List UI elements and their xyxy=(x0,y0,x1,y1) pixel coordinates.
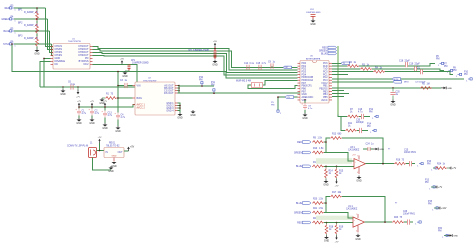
ground C20 xyxy=(390,100,396,107)
ground C4 xyxy=(115,126,121,133)
wire R19 down xyxy=(336,234,338,235)
connector P6 xyxy=(10,43,17,48)
wire C26 to P18 xyxy=(410,221,413,223)
capacitor C8 xyxy=(302,103,307,110)
wire row4 to P8 xyxy=(423,72,453,75)
capacitor C25 xyxy=(409,161,411,166)
svg-text:PD2: PD2 xyxy=(302,69,307,71)
wire C4 top xyxy=(117,98,119,113)
svg-text:PB6: PB6 xyxy=(302,88,307,90)
svg-text:JP2 JUMPER-2SMD: JP2 JUMPER-2SMD xyxy=(188,50,210,52)
wire BP3 to ground xyxy=(36,47,38,49)
svg-text:GND: GND xyxy=(356,180,362,183)
svg-text:GREEN: GREEN xyxy=(294,212,303,214)
wire feedback A left xyxy=(326,138,330,142)
svg-text:PM: PM xyxy=(427,163,431,165)
wire C25 to P17 xyxy=(412,163,415,165)
microcontroller U5 body xyxy=(300,61,329,104)
svg-text:R10: R10 xyxy=(313,148,318,150)
ground at C6 xyxy=(60,89,66,96)
svg-text:PB0/ICP1: PB0/ICP1 xyxy=(302,86,313,88)
junction feedback A xyxy=(382,163,384,165)
bus vertical xyxy=(337,46,339,115)
resistor R20 xyxy=(312,202,324,205)
junction out3 xyxy=(178,90,180,92)
wire U1 GND pin down xyxy=(44,58,51,87)
svg-text:GND: GND xyxy=(76,122,82,125)
wire GREEN to U1 CH2IN xyxy=(48,19,54,49)
svg-text:4.7u: 4.7u xyxy=(262,63,267,65)
svg-text:22pF: 22pF xyxy=(405,61,411,63)
svg-text:R16: R16 xyxy=(396,159,401,161)
svg-text:PD5/OC0B: PD5/OC0B xyxy=(302,77,314,79)
resonator X1 xyxy=(252,83,263,88)
regulator REG1 body xyxy=(104,148,124,158)
svg-text:PM: PM xyxy=(436,58,440,60)
net flag BLUE block B xyxy=(302,202,311,205)
ground flag row8 xyxy=(441,87,452,90)
wire REG1 out xyxy=(124,150,129,152)
wire C13 bottom xyxy=(104,118,106,123)
wire C1 top xyxy=(78,107,80,109)
connector P5 xyxy=(10,30,17,35)
wire row2 b xyxy=(359,65,405,67)
wire feedback A xyxy=(342,138,383,164)
capacitor C6 xyxy=(71,84,73,89)
ground flag P20 row xyxy=(447,234,458,237)
svg-text:PM: PM xyxy=(428,203,432,205)
connector P8 xyxy=(456,73,462,78)
svg-text:GND: GND xyxy=(122,75,128,78)
svg-text:PD3: PD3 xyxy=(302,72,307,74)
svg-text:22pF: 22pF xyxy=(415,64,421,66)
power +7V C2 xyxy=(90,101,94,107)
wire R7 to C16 xyxy=(359,116,361,118)
ground C1 xyxy=(76,118,82,125)
svg-text:ATMEGA88PA: ATMEGA88PA xyxy=(306,57,321,60)
wire P4 GREEN to net xyxy=(14,18,48,20)
svg-text:RED: RED xyxy=(297,222,302,224)
svg-text:C19: C19 xyxy=(409,64,414,66)
wire to -in B xyxy=(324,222,353,224)
svg-text:1M: 1M xyxy=(427,84,430,86)
svg-text:BLUE: BLUE xyxy=(296,203,302,205)
junction JP2 tap xyxy=(214,48,216,50)
svg-text:R23: R23 xyxy=(394,217,399,219)
wire jack to REG1 xyxy=(97,150,105,152)
ground below damping chain xyxy=(34,49,40,56)
wire R18 to gnd xyxy=(326,234,328,235)
wire U1 DISABLE down xyxy=(40,61,51,87)
svg-text:R_DAMP_US: R_DAMP_US xyxy=(24,37,39,40)
capacitor C30 xyxy=(359,128,361,133)
junction C6 gnd xyxy=(62,86,64,88)
wire U2 gnd pins xyxy=(178,103,181,111)
svg-text:C15: C15 xyxy=(256,63,261,65)
resistor R11 xyxy=(345,129,357,132)
svg-text:7: 7 xyxy=(357,156,358,158)
net flag RED block B xyxy=(302,221,311,224)
U5 left pin stubs xyxy=(298,62,301,64)
wire row9 xyxy=(332,90,344,92)
svg-text:4.7u: 4.7u xyxy=(358,111,363,113)
resistor R9 xyxy=(312,141,324,144)
svg-text:+12V: +12V xyxy=(441,208,447,210)
wire SYNC into U4 xyxy=(226,72,298,78)
jumper JP1 xyxy=(128,64,131,70)
svg-text:DS OUT: DS OUT xyxy=(164,92,174,95)
wire +7V tap xyxy=(77,87,79,90)
capacitor C16 xyxy=(361,114,363,119)
power +7V C1 xyxy=(77,101,81,107)
wire P13 to +7V xyxy=(431,186,435,188)
wire RED to U1 CH1IN xyxy=(46,8,54,46)
svg-text:GND: GND xyxy=(89,122,95,125)
wire CH2OUT run xyxy=(93,49,298,67)
svg-text:AVCC: AVCC xyxy=(321,99,328,102)
connector J1 DC jack xyxy=(89,148,97,158)
junction mix A xyxy=(325,141,327,143)
ground stem below rail xyxy=(62,87,64,89)
svg-text:BIAS: BIAS xyxy=(137,97,143,100)
junction R18 tap xyxy=(326,222,328,224)
svg-text:R17: R17 xyxy=(332,192,337,194)
power +5V at JP2 xyxy=(213,41,217,47)
svg-text:PD0: PD0 xyxy=(302,63,307,65)
svg-text:GND: GND xyxy=(355,238,361,241)
wire TxD row xyxy=(332,62,341,64)
wire U2 gnd pin3 xyxy=(178,107,181,109)
svg-text:JUMPER-2SMD: JUMPER-2SMD xyxy=(132,63,149,65)
svg-text:GND: GND xyxy=(99,102,105,105)
op-amp U1:1 xyxy=(353,217,365,227)
net flag BLUE bus entry xyxy=(328,52,337,55)
junction rail a xyxy=(78,106,80,108)
svg-text:Pr: Pr xyxy=(388,148,390,151)
power +7V at jack xyxy=(98,137,102,143)
svg-text:GREEN: GREEN xyxy=(1,19,10,21)
junction C20 xyxy=(392,87,394,89)
svg-text:GND: GND xyxy=(108,170,114,173)
net flag RED bus entry xyxy=(328,46,337,49)
svg-text:0.1u: 0.1u xyxy=(71,84,76,86)
svg-text:BLUE: BLUE xyxy=(296,166,302,168)
svg-text:R13: R13 xyxy=(332,134,337,136)
junction P5 xyxy=(36,30,38,32)
svg-text:RED: RED xyxy=(297,142,302,144)
svg-text:+7V: +7V xyxy=(77,101,81,103)
U3:1 vee stub xyxy=(358,167,360,174)
svg-text:GND: GND xyxy=(115,130,121,133)
svg-text:PM: PM xyxy=(211,84,215,86)
ground U2 pad xyxy=(190,110,196,117)
wire C24 left xyxy=(363,148,368,150)
U1 left pin stubs xyxy=(51,45,54,47)
svg-text:4.7u: 4.7u xyxy=(121,117,126,119)
wire BP2-BP3 xyxy=(36,34,38,37)
svg-text:R_DAMP_US: R_DAMP_US xyxy=(24,24,39,27)
capacitor C1 xyxy=(76,109,81,116)
junction gnd2 xyxy=(179,105,181,107)
svg-text:GND: GND xyxy=(190,114,196,117)
net flag MISO xyxy=(393,81,402,84)
ground U2 xyxy=(177,113,183,120)
wire C30 to P14 xyxy=(362,130,368,132)
svg-text:BP1: BP1 xyxy=(18,10,23,12)
wire row2 xyxy=(332,65,347,67)
svg-text:+7V: +7V xyxy=(90,101,94,103)
wire BLUE to U1 CH3IN xyxy=(50,31,54,52)
wire 7V to U2 AVCC xyxy=(105,105,135,108)
svg-text:0.1u: 0.1u xyxy=(250,63,255,65)
svg-text:CA3140EZ: CA3140EZ xyxy=(348,149,360,152)
resistor BP3 xyxy=(36,37,39,47)
wire C2 bottom xyxy=(91,116,93,118)
wire P3 RED to net xyxy=(14,7,46,9)
svg-text:PM: PM xyxy=(425,182,429,184)
svg-text:U3:1: U3:1 xyxy=(350,147,356,149)
svg-text:PM: PM xyxy=(367,126,371,128)
junction mix B xyxy=(325,202,327,204)
svg-text:REG1: REG1 xyxy=(109,143,116,145)
wire BP1 top xyxy=(36,8,38,11)
resistor R2 xyxy=(347,65,359,68)
capacitor C19 xyxy=(414,66,416,71)
wire R24 to +7V xyxy=(447,167,449,169)
svg-text:100nF PM1: 100nF PM1 xyxy=(404,152,417,154)
capacitor C4 xyxy=(115,113,120,120)
ground REG1 xyxy=(111,162,117,168)
svg-text:GREEN: GREEN xyxy=(294,152,303,154)
junction P4 xyxy=(36,18,38,20)
resistor R7 xyxy=(347,115,359,118)
video amp U2 body xyxy=(135,82,175,115)
svg-text:GND 4: GND 4 xyxy=(166,110,174,112)
resistor R13fb xyxy=(330,137,342,140)
wire C24 right xyxy=(371,148,374,150)
net flag RESET xyxy=(283,66,292,69)
wire row3 to P7 xyxy=(417,69,444,71)
svg-text:PM: PM xyxy=(271,104,274,106)
connector P15 xyxy=(432,207,438,212)
U2 gnd pin stubs xyxy=(175,102,178,104)
svg-text:+5V: +5V xyxy=(213,41,217,43)
wire row10 xyxy=(332,93,349,95)
wire jack to +7V xyxy=(99,143,101,151)
svg-text:4: 4 xyxy=(357,172,358,174)
wire P20 to gnd flag xyxy=(444,235,447,237)
wire U2 gnd pin2 xyxy=(178,105,181,107)
svg-text:2200pF: 2200pF xyxy=(356,122,364,124)
resistor R17fb xyxy=(330,195,342,198)
svg-text:BP2: BP2 xyxy=(18,23,23,25)
svg-text:JUMPER-SMD: JUMPER-SMD xyxy=(306,12,321,14)
connector P17 xyxy=(417,163,423,168)
svg-text:4.7u: 4.7u xyxy=(82,113,87,115)
connector P20 xyxy=(442,234,448,239)
connector P11 xyxy=(213,89,215,93)
ground R18 xyxy=(324,236,330,243)
connector P3 xyxy=(10,7,17,12)
net highlight band B xyxy=(316,216,353,220)
U3:1 vcc stub xyxy=(358,156,360,160)
svg-text:+7V: +7V xyxy=(335,242,339,244)
connector P13 xyxy=(429,186,435,191)
svg-text:PB1: PB1 xyxy=(323,86,328,88)
svg-text:+7V: +7V xyxy=(98,137,102,139)
ground U3:1 xyxy=(356,176,362,183)
connector P4 xyxy=(10,18,17,23)
U2 left pin stubs xyxy=(133,85,136,87)
junction bias xyxy=(117,97,119,99)
wire bias branch xyxy=(117,86,119,99)
svg-text:CONN-TV_SP-PL-M: CONN-TV_SP-PL-M xyxy=(67,145,88,147)
net flag RED block A xyxy=(302,141,311,144)
svg-text:GND: GND xyxy=(447,88,452,90)
svg-text:PC6: PC6 xyxy=(323,63,328,65)
power +7V C13 xyxy=(103,101,107,107)
net highlight band A xyxy=(316,158,352,164)
junction C3 xyxy=(117,85,119,87)
power +7V below R15 xyxy=(335,180,339,188)
svg-text:PC1: PC1 xyxy=(323,74,328,76)
resistor R12 xyxy=(312,165,324,168)
ground R14 xyxy=(323,180,329,187)
svg-text:+7V: +7V xyxy=(438,187,443,189)
svg-text:OUT: OUT xyxy=(118,152,123,154)
junction P3/BP1 xyxy=(36,7,38,9)
wire P6 SYNC to net xyxy=(14,43,52,45)
svg-text:PC0: PC0 xyxy=(323,72,328,74)
wire C20 drop xyxy=(392,88,394,92)
wire to -in A xyxy=(324,165,354,167)
svg-text:PM: PM xyxy=(199,79,203,81)
wire to +in A xyxy=(326,153,354,162)
svg-text:+7V: +7V xyxy=(76,97,80,99)
svg-text:PB7: PB7 xyxy=(302,91,307,93)
svg-text:RED: RED xyxy=(5,8,10,10)
svg-text:PM: PM xyxy=(464,74,468,76)
svg-text:GND: GND xyxy=(102,127,108,130)
svg-text:CA3140EZ: CA3140EZ xyxy=(346,208,358,211)
wire out row B to U4 xyxy=(178,92,301,94)
junction U1 GND xyxy=(43,58,45,60)
power +7V P13 row xyxy=(435,186,443,189)
wire row4 b xyxy=(385,71,420,73)
svg-text:4.7u: 4.7u xyxy=(95,113,100,115)
svg-text:RxD: RxD xyxy=(323,66,328,68)
svg-text:PB3: PB3 xyxy=(323,91,328,93)
capacitor C26 xyxy=(407,220,409,225)
wire rail up to U1 NC xyxy=(93,64,138,87)
U1 right pin stubs xyxy=(90,45,93,47)
power +7V below R19 xyxy=(335,236,339,244)
wire R15 drop xyxy=(336,166,338,168)
svg-text:+7V: +7V xyxy=(335,186,339,188)
svg-text:U1:1: U1:1 xyxy=(348,206,354,208)
op-amp U1 body xyxy=(53,44,90,70)
svg-text:C18: C18 xyxy=(399,61,404,63)
svg-text:NC2: NC2 xyxy=(83,63,89,66)
svg-text:GND: GND xyxy=(379,149,384,151)
svg-text:GREEN: GREEN xyxy=(319,50,328,52)
wire out2 xyxy=(178,87,180,89)
net flag GREEN bus entry xyxy=(328,49,337,52)
wire out3 xyxy=(178,90,180,92)
capacitor C13 xyxy=(102,111,107,118)
wire feedback B left xyxy=(326,197,330,204)
svg-text:100nF PM1: 100nF PM1 xyxy=(403,214,416,216)
resistor R22 xyxy=(312,221,324,224)
REG1 gnd stub xyxy=(113,158,115,162)
wire row8 long xyxy=(332,87,441,89)
svg-text:+7V: +7V xyxy=(452,168,457,170)
connector P6 xyxy=(438,62,444,67)
svg-text:GND: GND xyxy=(302,117,308,120)
svg-text:IN: IN xyxy=(106,152,109,154)
wire decoupling rail xyxy=(40,86,137,88)
svg-text:BP3: BP3 xyxy=(18,36,23,38)
svg-text:PC3: PC3 xyxy=(323,80,328,82)
wire jack sleeve to ground xyxy=(93,158,112,171)
svg-text:PB2/SS: PB2/SS xyxy=(319,88,328,90)
jumper JP4 xyxy=(311,15,316,19)
svg-text:GND: GND xyxy=(302,94,307,96)
wire P5 drop xyxy=(277,97,279,110)
net flag AREF xyxy=(285,96,294,99)
svg-text:PD4: PD4 xyxy=(302,74,307,76)
capacitor C20 xyxy=(390,92,395,94)
junction rail b xyxy=(91,106,93,108)
wire to C26 xyxy=(404,221,407,223)
svg-text:7: 7 xyxy=(356,214,357,216)
net flag GREEN block A xyxy=(302,151,311,154)
svg-text:BLUE: BLUE xyxy=(3,31,9,33)
wire row7 xyxy=(332,81,393,83)
junction SYNC xyxy=(11,43,13,45)
svg-text:PD1: PD1 xyxy=(302,66,307,68)
power +5V at JP1 xyxy=(120,58,124,64)
svg-text:Pr: Pr xyxy=(395,202,397,205)
resistor R19 xyxy=(335,224,338,234)
wire JP1 gnd link xyxy=(125,70,129,72)
svg-text:MUR-M2.0 4M: MUR-M2.0 4M xyxy=(236,81,251,83)
capacitor C21 xyxy=(420,69,422,74)
svg-text:VCC: VCC xyxy=(302,100,307,102)
connector P10 xyxy=(201,82,203,86)
svg-text:PM: PM xyxy=(453,70,457,72)
svg-text:SYNC: SYNC xyxy=(3,44,10,46)
wire mix join A xyxy=(324,142,326,153)
svg-text:4: 4 xyxy=(356,231,357,233)
wire R15 down xyxy=(336,178,338,179)
junction P11 xyxy=(213,92,215,94)
U5 right pin stubs xyxy=(329,62,332,64)
wire R14 to gnd xyxy=(325,178,327,179)
junction feedback B xyxy=(384,221,386,223)
svg-text:GND: GND xyxy=(324,240,330,243)
svg-text:GND: GND xyxy=(111,165,117,168)
svg-text:PB5: PB5 xyxy=(323,97,328,99)
ground at jack xyxy=(108,166,114,173)
svg-text:78L05 TO-92: 78L05 TO-92 xyxy=(106,145,120,147)
wire R11 to C30 xyxy=(357,130,359,132)
svg-text:PM: PM xyxy=(369,111,373,113)
ground at JP1 xyxy=(122,71,128,78)
svg-text:PD6/OC0A: PD6/OC0A xyxy=(302,79,314,82)
resistor R23 xyxy=(392,221,404,224)
U2 right pin stubs xyxy=(175,85,178,87)
